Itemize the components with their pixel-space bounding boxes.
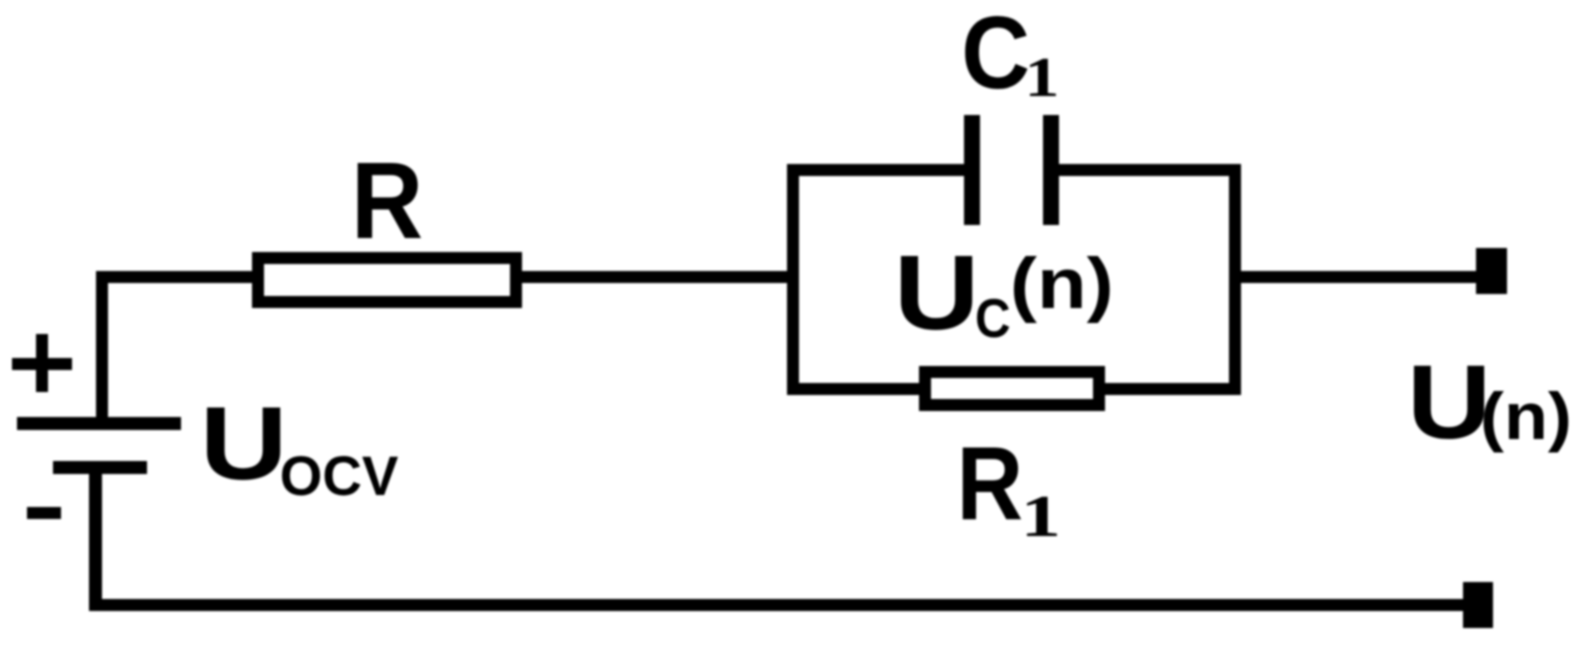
svg-text:R: R [957, 425, 1023, 541]
wire: RC block top edge, left segment to C1 [787, 164, 972, 176]
svg-text:(n): (n) [1480, 380, 1571, 454]
minus sign (battery polarity) [27, 507, 61, 519]
wire: battery negative lead (vertical) [89, 474, 102, 611]
svg-text:(n): (n) [1010, 245, 1114, 324]
wire: top-left horizontal from battery to resistor R [96, 271, 258, 283]
svg-text:C: C [975, 289, 1011, 350]
wire: battery positive lead (vertical, node A) [96, 271, 108, 417]
wire: RC block right edge [1229, 164, 1241, 395]
label UOCV open-circuit voltage [200, 385, 399, 507]
label U(n) terminal voltage [1407, 343, 1571, 460]
battery U_OCV negative plate (short) [53, 461, 147, 474]
svg-text:U: U [200, 385, 288, 501]
wire: RC block to positive output terminal [1241, 271, 1476, 283]
svg-text:R: R [351, 140, 423, 262]
plus sign (battery polarity) [12, 334, 72, 392]
svg-text:U: U [894, 233, 980, 352]
svg-text:C: C [961, 0, 1030, 111]
terminal: negative output [1463, 582, 1493, 628]
svg-text:U: U [1407, 343, 1491, 460]
terminal: positive output [1476, 248, 1507, 294]
wire: RC block left edge [787, 164, 799, 395]
capacitor C1 (left plate) [964, 115, 980, 225]
svg-text:1: 1 [1021, 484, 1062, 549]
svg-text:1: 1 [1024, 46, 1059, 109]
wire: bottom return to negative output terminal [89, 599, 1463, 611]
svg-text:OCV: OCV [280, 444, 399, 507]
wire: resistor R to RC block [516, 271, 799, 283]
label R [351, 140, 423, 262]
resistor R1 (polarization resistance, parallel with C1) [925, 372, 1099, 405]
label C1 [961, 0, 1059, 111]
label R1 [957, 425, 1061, 550]
label UC(n) capacitor voltage [894, 233, 1114, 352]
wire: RC block bottom edge [787, 383, 1241, 395]
battery U_OCV positive plate (long) [17, 417, 181, 430]
wire: RC block top edge, right segment from C1 [1051, 164, 1241, 176]
resistor R (series internal resistance) [258, 258, 516, 302]
capacitor C1 (right plate) [1043, 115, 1059, 225]
